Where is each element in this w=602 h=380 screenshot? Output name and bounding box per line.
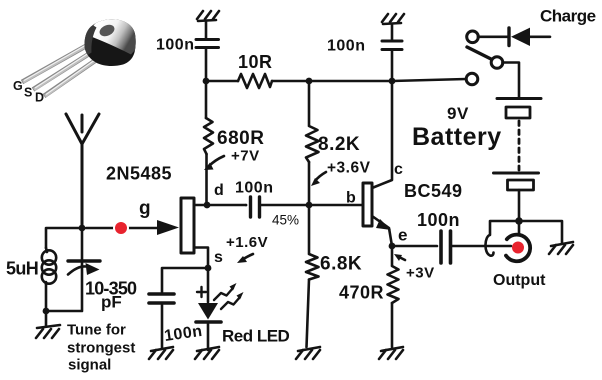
svg-text:c: c [394, 161, 403, 178]
wire rail mid segment [272, 80, 309, 83]
resistor R1 10R [238, 74, 272, 88]
capacitor C4 100n coupling [246, 197, 309, 217]
capacitor C6 100n output [392, 231, 511, 263]
svg-text:b: b [346, 190, 356, 207]
bright curved face [90, 18, 136, 55]
svg-text:2N5485: 2N5485 [106, 164, 172, 184]
switch terminal charge [467, 31, 479, 43]
arrow +1.6V [242, 254, 253, 260]
wire rail to switch [392, 79, 466, 81]
antenna [66, 114, 99, 228]
svg-text:+1.6V: +1.6V [226, 234, 268, 251]
svg-text:5uH: 5uH [6, 259, 38, 279]
LED light arrows [214, 283, 244, 309]
resistor R3 8.2K [306, 81, 319, 205]
arrow +7V [209, 156, 224, 166]
ground 6.8K [296, 347, 320, 359]
svg-text:S: S [24, 86, 32, 100]
svg-text:pF: pF [101, 293, 122, 312]
wire rail to collector column [309, 80, 392, 83]
wire switch to battery [503, 63, 520, 99]
wire cap bottom [46, 263, 82, 311]
wire source [194, 248, 208, 269]
transistor Q2 BC549 base bar [363, 183, 372, 226]
svg-text:45%: 45% [272, 213, 299, 228]
svg-text:D: D [35, 91, 44, 105]
leads [22, 46, 99, 96]
capacitor C3 100n top-mid [382, 25, 402, 81]
switch terminal battery [491, 57, 503, 69]
wire cap branch [81, 228, 84, 260]
battery cell2 [494, 173, 539, 190]
node antenna junction [79, 225, 86, 232]
gate arrowhead [157, 220, 179, 235]
svg-text:680R: 680R [217, 128, 264, 149]
resistor R4 6.8K [306, 205, 319, 347]
output jack center pin [512, 242, 524, 254]
arrow +3.6V [315, 172, 326, 181]
svg-text:8.2K: 8.2K [318, 134, 360, 155]
svg-text:100n: 100n [235, 180, 273, 197]
svg-text:strongest: strongest [67, 340, 135, 357]
ground LED [195, 347, 219, 359]
diode D1 charge [478, 28, 550, 46]
svg-text:10R: 10R [238, 52, 273, 72]
node source [205, 265, 212, 272]
svg-text:BC549: BC549 [404, 181, 463, 201]
svg-text:Charge: Charge [540, 7, 596, 26]
inductor L1 5uH [42, 248, 56, 284]
svg-text:d: d [214, 182, 224, 199]
node rail right [389, 78, 396, 85]
svg-text:g: g [139, 198, 151, 219]
capacitor C2 100n top-left [196, 22, 219, 81]
node tank bottom [43, 308, 50, 315]
arrow +3V [399, 257, 405, 260]
node base divider [306, 202, 313, 209]
wire 680R to rail [205, 81, 208, 118]
wire source to cap [162, 268, 208, 292]
svg-text:+3V: +3V [406, 265, 435, 282]
collector wire [372, 81, 392, 188]
battery BT1 cell1 [497, 99, 541, 119]
ground C5 [149, 347, 173, 359]
svg-text:100n: 100n [327, 38, 365, 55]
variable capacitor arrow [68, 266, 86, 274]
svg-text:Tune for: Tune for [67, 322, 126, 339]
svg-text:Battery: Battery [412, 123, 502, 151]
svg-text:9V: 9V [447, 104, 469, 123]
switch lever [467, 47, 491, 59]
emitter wire with arrow [372, 216, 392, 246]
ground tank [36, 311, 60, 338]
svg-text:+3.6V: +3.6V [327, 160, 371, 177]
svg-text:100n: 100n [417, 210, 460, 230]
wire antenna node to coil branch [46, 228, 82, 248]
svg-text:e: e [398, 226, 408, 245]
ground top-mid (inverted) [382, 14, 404, 24]
dimple [98, 23, 116, 39]
svg-text:+7V: +7V [231, 148, 260, 165]
output jack ring [506, 235, 530, 262]
ground 470R [379, 347, 403, 359]
switch terminal on rail [466, 73, 478, 85]
resistor R2 680R [204, 118, 213, 154]
wire gate [86, 227, 157, 230]
wire battery to output node [518, 190, 521, 221]
ground top-left (inverted) [197, 11, 219, 21]
node rail left [203, 78, 210, 85]
svg-text:s: s [214, 249, 223, 266]
svg-text:470R: 470R [339, 283, 384, 303]
node drain [204, 202, 211, 209]
svg-text:100n: 100n [156, 37, 194, 54]
wire base [309, 204, 363, 207]
wire junction to jack shield [518, 221, 521, 234]
variable capacitor C1 10-350pF plate [68, 259, 100, 262]
wire coil bottom [45, 282, 48, 311]
battery dashed link [518, 121, 521, 170]
wire drain [194, 204, 246, 207]
svg-text:Red LED: Red LED [222, 327, 290, 346]
svg-text:6.8K: 6.8K [320, 254, 362, 275]
svg-text:signal: signal [68, 357, 111, 374]
LED D2 red [196, 268, 221, 350]
node red dot [113, 220, 129, 236]
node emitter [389, 243, 396, 250]
node output junction [515, 217, 523, 225]
node rail mid [306, 78, 313, 85]
transistor package photo (TO-92) [22, 18, 136, 96]
resistor R5 470R [388, 246, 399, 347]
wire rail left segment [206, 80, 238, 83]
svg-text:Output: Output [493, 272, 546, 289]
wire junction to right ground [519, 221, 562, 243]
JFET Q1 channel bar [181, 198, 194, 253]
wire junction left hop [485, 221, 519, 256]
body silhouette [85, 19, 136, 66]
ground output [549, 242, 573, 254]
svg-text:G: G [13, 79, 23, 93]
capacitor C5 100n source [149, 294, 174, 348]
LED plus sign [197, 287, 206, 297]
left flat face [82, 25, 97, 57]
